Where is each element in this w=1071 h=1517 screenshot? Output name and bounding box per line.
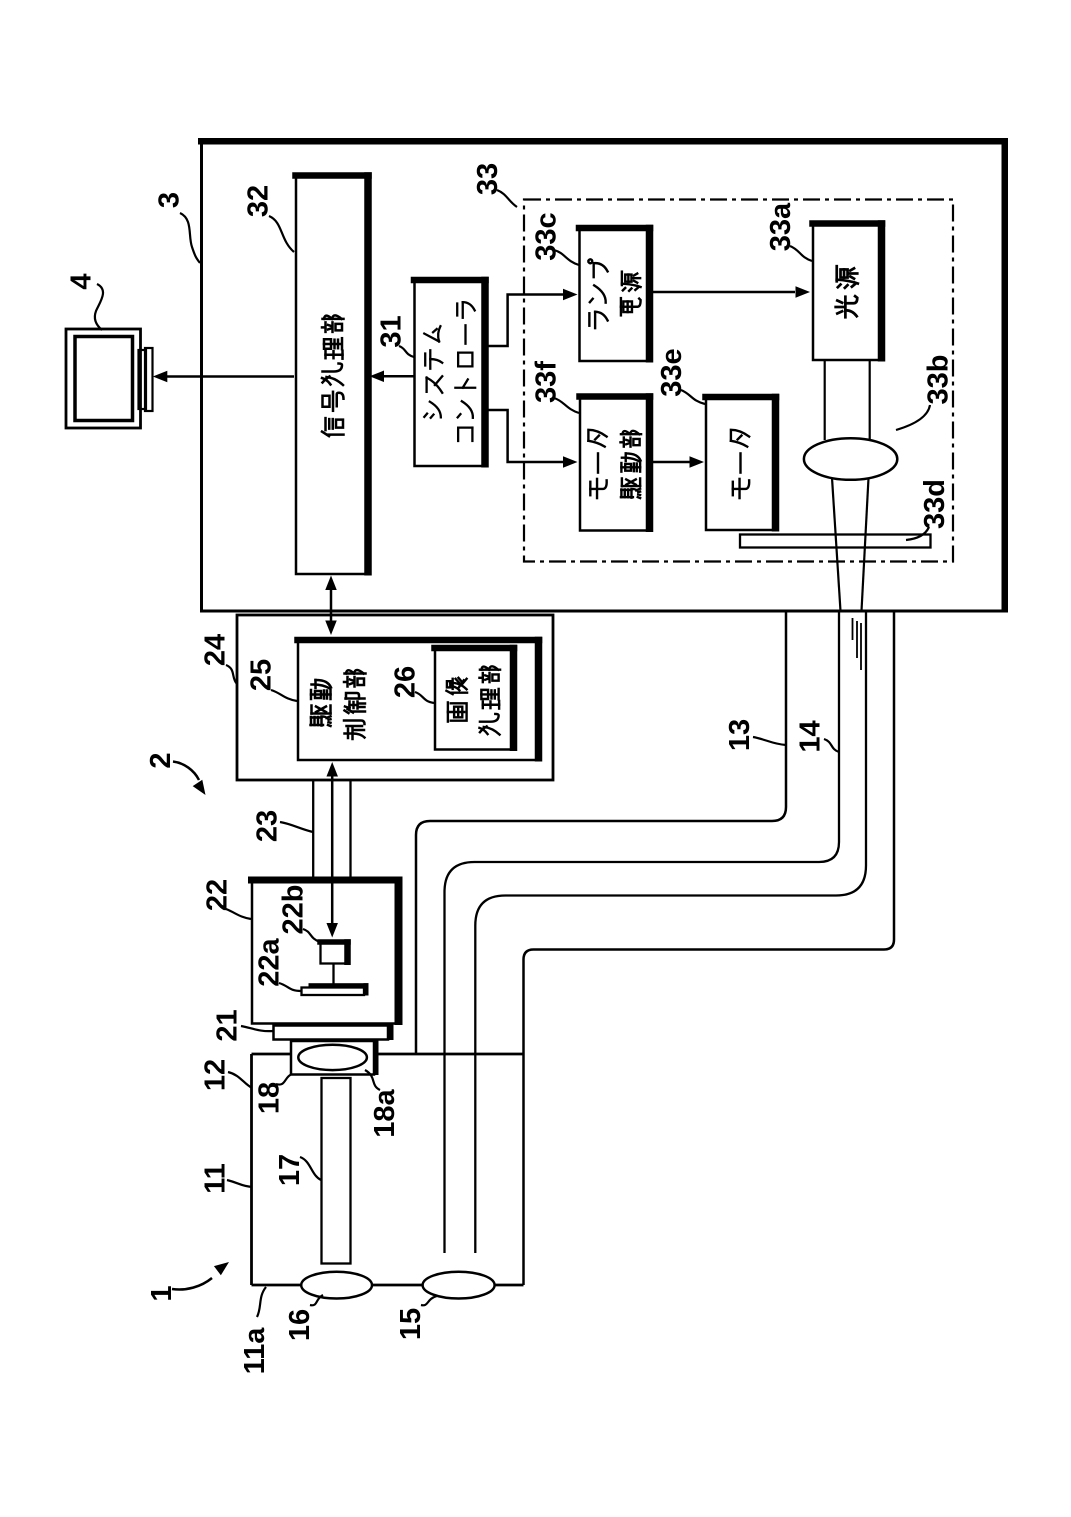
svg-text:12: 12 — [199, 1059, 231, 1091]
text 信号処理部 — [322, 418, 344, 436]
wire 31 to 33c — [483, 295, 563, 347]
fiber 14 right-bottom boundary — [475, 612, 866, 1253]
svg-text:33c: 33c — [530, 212, 562, 260]
wire 22b to 22a — [332, 964, 334, 985]
wire 33c to 33a with arrow — [652, 291, 795, 294]
box 3 thick right edge — [1002, 138, 1009, 613]
double arrow 25 to 22b — [331, 772, 334, 928]
svg-text:33a: 33a — [765, 202, 797, 251]
svg-text:15: 15 — [395, 1308, 427, 1340]
wire 31 to 32 with arrow — [384, 375, 414, 378]
svg-text:3: 3 — [153, 192, 185, 208]
svg-text:21: 21 — [211, 1009, 243, 1041]
scope left edge — [250, 1054, 253, 1285]
svg-text:33e: 33e — [656, 348, 688, 396]
beam converging right — [862, 478, 869, 611]
box 3 thick top edge — [198, 138, 1008, 145]
svg-text:31: 31 — [375, 315, 407, 347]
fiber 14 left-top boundary — [445, 612, 840, 1253]
lens cell 18 — [291, 1041, 374, 1075]
text 処理部 — [479, 714, 499, 735]
svg-text:13: 13 — [724, 719, 756, 751]
box 26 image processing unit — [435, 648, 513, 750]
lens 33b — [804, 438, 897, 480]
svg-text:33d: 33d — [919, 479, 951, 529]
svg-text:11: 11 — [199, 1163, 231, 1194]
svg-text:18: 18 — [253, 1082, 285, 1114]
box 33f motor drive unit — [580, 397, 649, 531]
cable 23 right line — [349, 780, 351, 878]
objective window lens 16 — [301, 1272, 372, 1299]
svg-text:14: 14 — [794, 720, 826, 752]
fiber bundle hatch — [852, 618, 854, 640]
box 22b drive circuit — [321, 942, 348, 964]
box 3 processor/light-source unit outline — [202, 141, 1005, 611]
text ランプ — [589, 312, 607, 328]
text 制御部 — [344, 721, 365, 740]
svg-text:1: 1 — [146, 1285, 178, 1301]
box 31 system controller — [415, 280, 485, 466]
box 32 signal processing unit — [296, 176, 368, 575]
svg-text:22a: 22a — [253, 937, 285, 986]
svg-text:25: 25 — [245, 659, 277, 691]
text 駆動 — [311, 706, 331, 727]
monitor 4 stand flange — [139, 350, 147, 409]
filter bar 33d — [740, 535, 931, 548]
illumination lens 15 — [423, 1272, 495, 1299]
svg-text:4: 4 — [65, 273, 97, 289]
relay lens rod 17 — [322, 1078, 351, 1264]
text 光源 — [836, 296, 858, 317]
monitor 4 outer case — [66, 329, 141, 428]
svg-text:18a: 18a — [369, 1088, 401, 1137]
beam converging left — [832, 478, 841, 611]
svg-text:32: 32 — [242, 185, 274, 217]
wire 31 to 33f — [483, 410, 563, 462]
mount 21 — [274, 1026, 389, 1040]
box 22 camera head — [252, 880, 398, 1024]
svg-text:33f: 33f — [530, 361, 562, 403]
scope bottom edge 11a — [252, 1284, 524, 1287]
arrowhead into monitor — [153, 371, 168, 383]
box 33c lamp power supply — [580, 228, 650, 361]
text 画像 — [448, 702, 467, 721]
text モータ(33e) — [733, 479, 749, 498]
sensor plate 22a — [302, 988, 365, 996]
beam edge left — [824, 361, 826, 440]
cable 13 upper-left boundary — [416, 612, 786, 1054]
svg-text:2: 2 — [145, 752, 177, 768]
svg-text:22b: 22b — [277, 885, 309, 935]
cable 23 left line — [312, 780, 314, 878]
svg-text:33b: 33b — [922, 355, 954, 405]
lens 18a — [298, 1045, 367, 1070]
wire signal-processor to monitor — [165, 375, 294, 378]
text 駆動部 — [621, 478, 640, 498]
dash-dot box 33 light source unit — [524, 200, 953, 562]
wire 33f to 33e with arrow — [652, 461, 691, 464]
monitor 4 stand base — [145, 348, 153, 411]
text コントローラ — [458, 428, 472, 441]
text 電源 — [621, 298, 641, 315]
text モータ(33f) — [590, 479, 606, 498]
cable 13 lower-right boundary + scope right edge — [524, 612, 895, 1285]
svg-text:16: 16 — [284, 1309, 316, 1341]
monitor 4 screen — [75, 337, 133, 421]
text システム — [424, 402, 441, 418]
box 24 camera control unit — [237, 615, 553, 780]
svg-text:24: 24 — [199, 634, 231, 666]
svg-text:11a: 11a — [239, 1327, 271, 1375]
svg-text:23: 23 — [251, 810, 283, 842]
beam edge right — [869, 361, 871, 440]
box 33e motor — [706, 397, 775, 530]
box 25 drive control unit — [298, 640, 538, 760]
box 33a light source — [813, 224, 881, 361]
svg-text:22: 22 — [201, 879, 233, 911]
double arrow 32 to 25 — [330, 586, 333, 625]
scope top edge — [252, 1053, 524, 1056]
